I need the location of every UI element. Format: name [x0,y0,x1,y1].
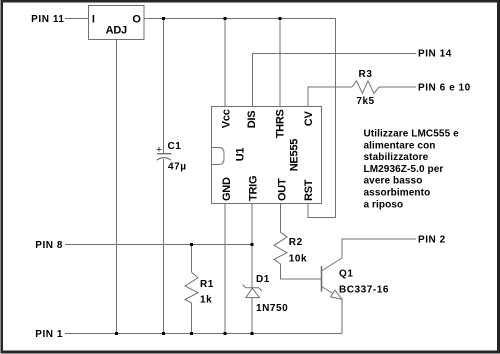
transistor Q1 emitter diagonal [322,287,343,300]
svg-text:C1: C1 [168,141,182,152]
svg-text:R2: R2 [289,237,303,248]
wire THRS pin to top rail [279,19,281,107]
wire D1 anode to ground rail [251,298,253,334]
transistor Q1 collector and wire to PIN 2 [322,239,417,271]
svg-text:THRS: THRS [275,109,287,138]
svg-text:1k: 1k [200,295,212,306]
capacitor C1 top plate [157,153,172,155]
svg-text:PIN 1: PIN 1 [35,329,63,340]
svg-text:RST: RST [303,179,315,201]
regulator U2 box (I / O / ADJ) [89,6,145,40]
capacitor C1 curved bottom plate [157,158,171,161]
svg-text:LM2936Z-5.0 per: LM2936Z-5.0 per [364,164,444,175]
wire ground rail PIN 1 [65,333,342,335]
svg-text:Vcc: Vcc [221,109,233,128]
svg-text:assorbimento: assorbimento [364,188,431,199]
zener diode D1 [243,285,262,298]
svg-text:47µ: 47µ [168,162,187,173]
wire C1 branch upper [163,19,165,154]
svg-text:PIN 11: PIN 11 [31,14,64,25]
wire R2 to Q1 base [281,264,322,279]
svg-text:PIN 8: PIN 8 [35,240,63,251]
svg-text:D1: D1 [256,274,270,285]
capacitor C1 plus sign [157,147,162,152]
wire OUT pin to R2 [280,204,282,233]
wire TRIG pin down to D1 [251,204,253,288]
resistor R1 zigzag [185,272,198,303]
svg-text:alimentare con: alimentare con [364,140,436,151]
svg-text:avere basso: avere basso [364,176,423,187]
svg-text:10k: 10k [289,254,307,265]
svg-text:Q1: Q1 [339,269,353,280]
wire Q1 emitter down to ground rail [341,299,343,333]
svg-text:1N750: 1N750 [256,303,288,314]
svg-text:R1: R1 [200,279,214,290]
wire R1 top stub [191,245,193,273]
wire PIN 11 to regulator input [65,18,89,20]
wire Vcc pin to top rail [224,19,226,107]
svg-text:CV: CV [303,111,315,127]
svg-text:O: O [132,13,141,25]
svg-text:stabilizzatore: stabilizzatore [364,152,429,163]
svg-text:a riposo: a riposo [364,199,404,210]
wire C1 branch lower [163,159,165,334]
svg-text:ADJ: ADJ [106,25,127,37]
resistor R2 zigzag [274,232,287,264]
svg-text:TRIG: TRIG [248,176,260,201]
wire DIS pin up and right to PIN 14 [253,54,417,107]
transistor Q1 base bar [321,266,323,292]
resistor R3 zigzag [352,81,379,94]
svg-text:NE555: NE555 [289,139,301,172]
svg-text:GND: GND [221,177,233,201]
IC U1 notch [212,148,225,165]
wire CV pin up and right to R3 [308,87,352,107]
wire R3 to PIN 6 e 10 [379,86,416,88]
svg-text:7k5: 7k5 [356,96,374,107]
wire Vcc top rail from regulator O to right loop down to RST [144,19,336,218]
wire GND pin to ground rail [224,204,226,334]
svg-text:I: I [92,13,95,25]
svg-text:OUT: OUT [277,178,289,201]
svg-text:R3: R3 [359,69,373,80]
svg-text:DIS: DIS [246,111,258,129]
wire PIN 8 rail [65,244,252,246]
svg-text:BC337-16: BC337-16 [339,284,389,295]
svg-text:PIN 6 e 10: PIN 6 e 10 [418,83,471,94]
transistor Q1 emitter arrowhead [331,290,342,299]
IC U1 NE555 body [212,107,322,204]
wire R1 bottom stub [191,303,193,334]
svg-text:PIN 14: PIN 14 [418,49,452,60]
wire regulator ADJ down to ground rail [116,40,118,334]
svg-text:U1: U1 [234,148,246,162]
svg-text:PIN 2: PIN 2 [418,235,446,246]
svg-text:Utilizzare LMC555 e: Utilizzare LMC555 e [364,129,460,140]
